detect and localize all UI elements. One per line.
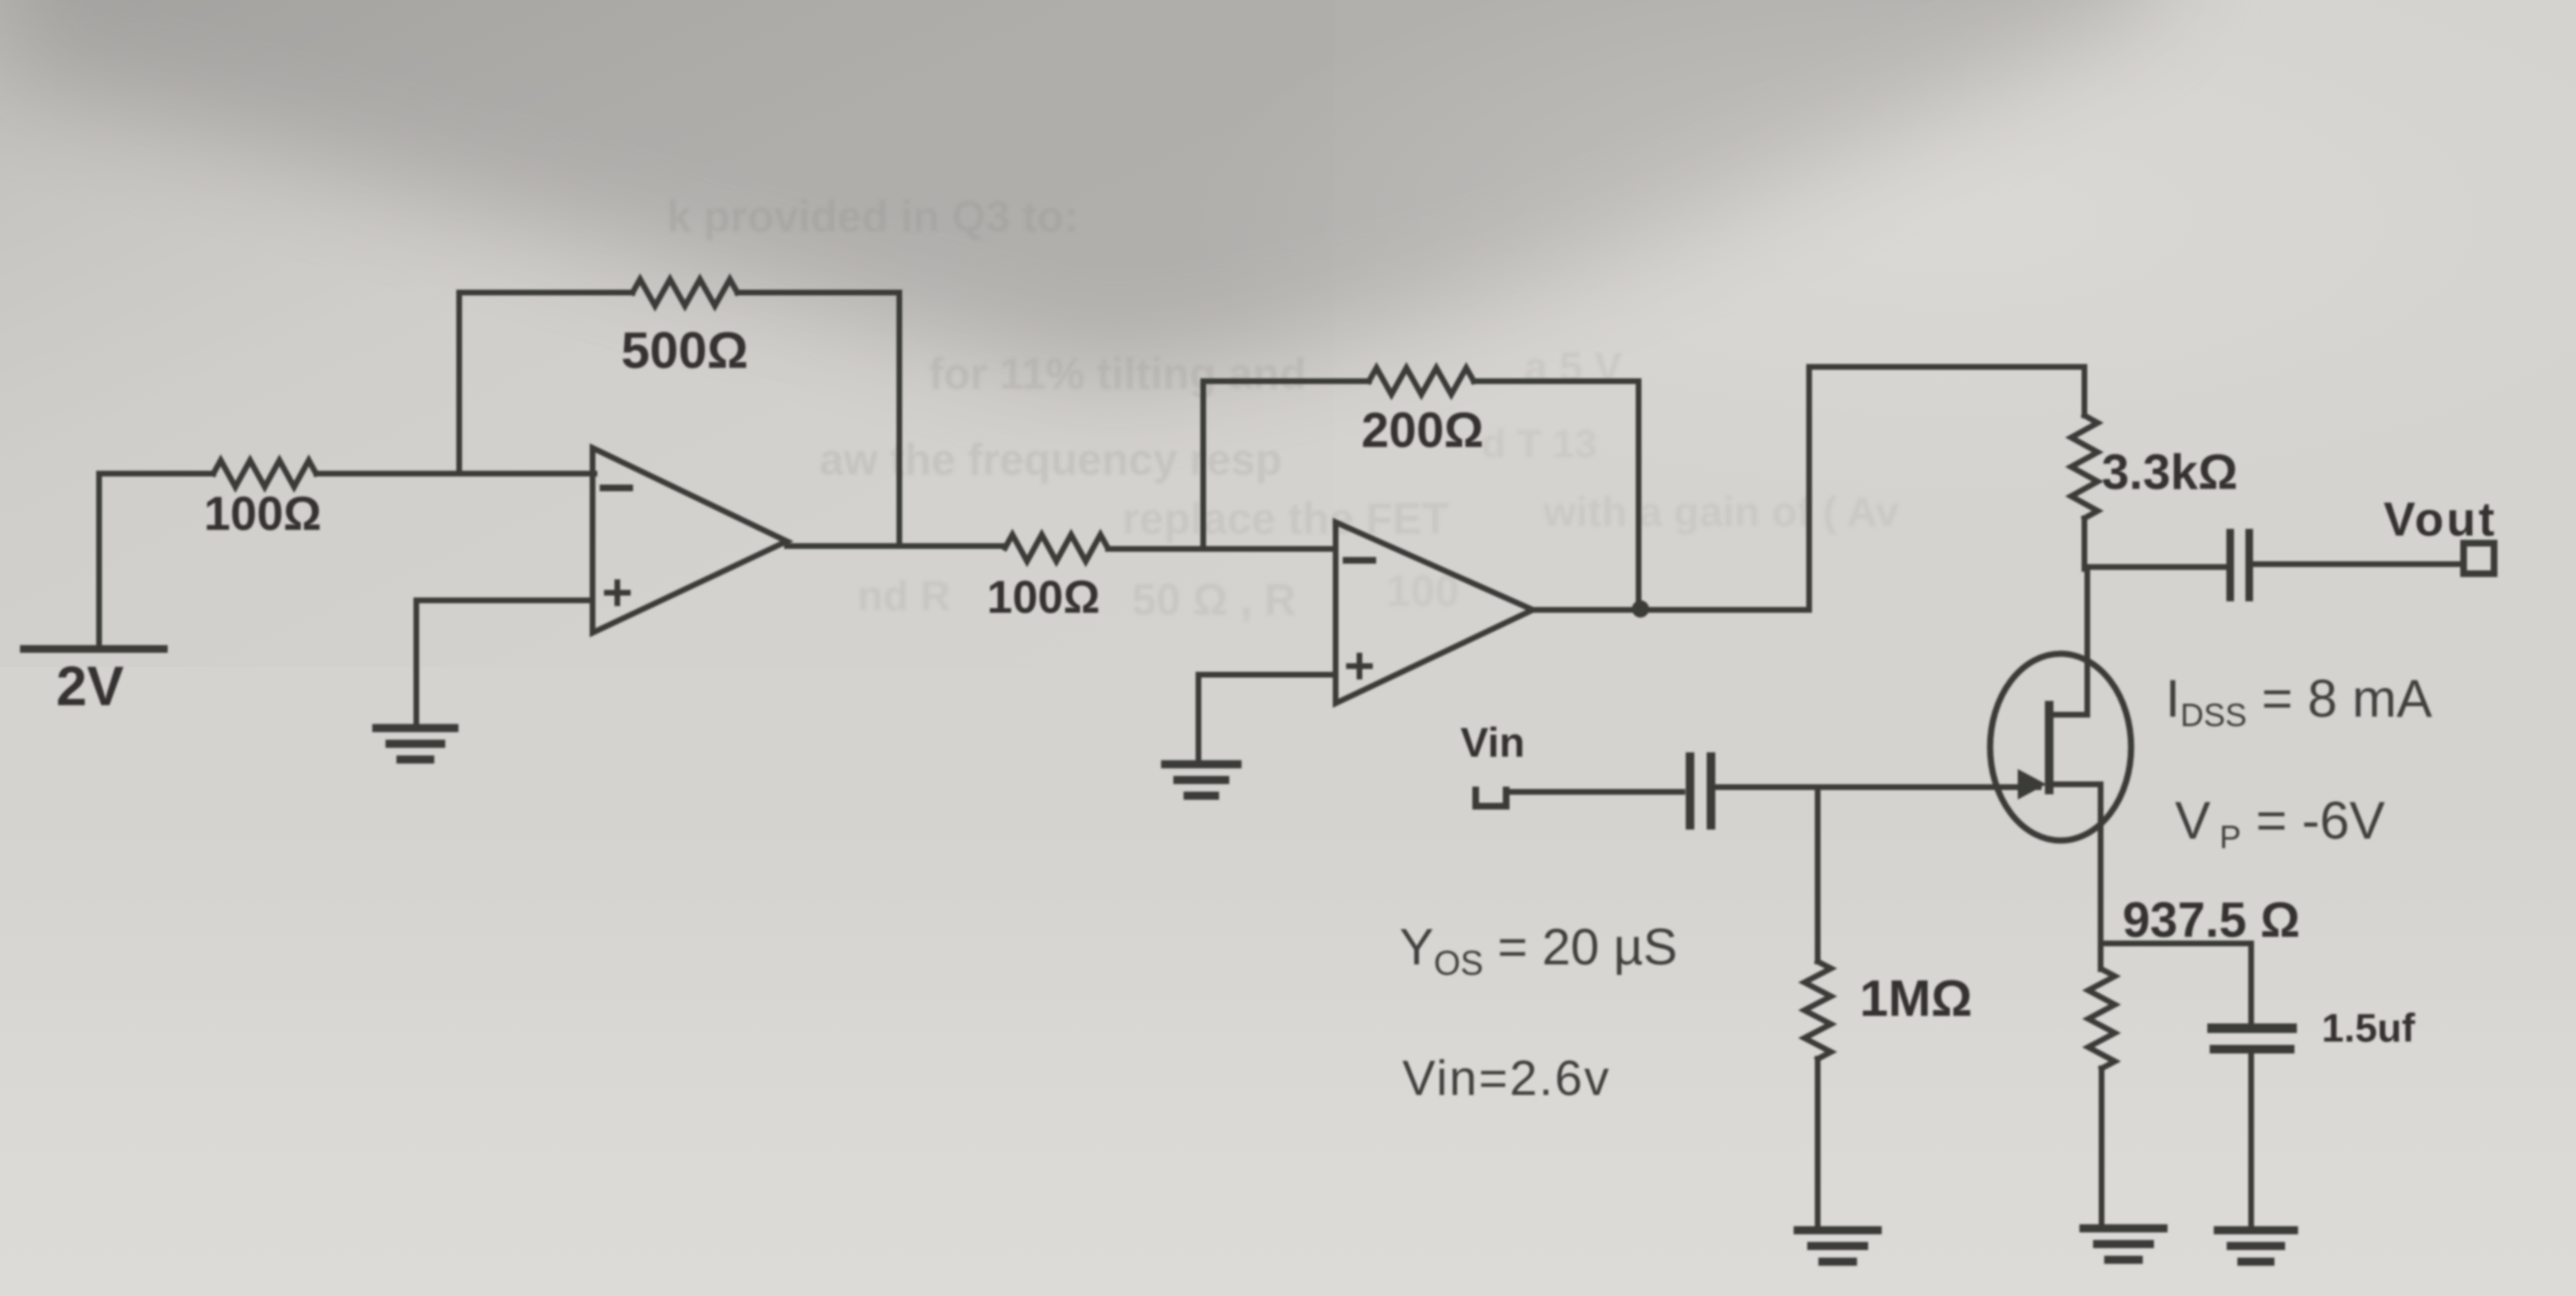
svg-text:2V: 2V <box>56 656 124 718</box>
svg-text:937.5 Ω: 937.5 Ω <box>2123 893 2300 948</box>
svg-text:k provided in Q3 to:: k provided in Q3 to: <box>667 192 1078 241</box>
svg-text:100Ω: 100Ω <box>987 573 1100 623</box>
svg-text:V P = -6V: V P = -6V <box>2175 790 2385 856</box>
svg-text:Vin: Vin <box>1460 719 1525 766</box>
svg-text:3.3kΩ: 3.3kΩ <box>2102 445 2238 500</box>
svg-text:Vout: Vout <box>2384 493 2497 546</box>
svg-text:200Ω: 200Ω <box>1361 403 1483 458</box>
svg-text:50 Ω , R: 50 Ω , R <box>1132 575 1296 624</box>
svg-text:nd R: nd R <box>857 573 951 619</box>
svg-text:aw the frequency resp: aw the frequency resp <box>819 435 1282 484</box>
svg-text:for 11% tilting and: for 11% tilting and <box>929 349 1306 398</box>
svg-text:replace the FET: replace the FET <box>1122 494 1449 543</box>
svg-text:1MΩ: 1MΩ <box>1860 970 1972 1027</box>
svg-text:with a gain of ( Av: with a gain of ( Av <box>1542 489 1900 536</box>
svg-text:d T 13: d T 13 <box>1481 421 1597 466</box>
svg-text:1.5uf: 1.5uf <box>2322 1005 2416 1050</box>
svg-text:Vin=2.6v: Vin=2.6v <box>1402 1051 1611 1106</box>
svg-text:500Ω: 500Ω <box>621 322 748 379</box>
svg-text:100Ω: 100Ω <box>204 487 322 540</box>
